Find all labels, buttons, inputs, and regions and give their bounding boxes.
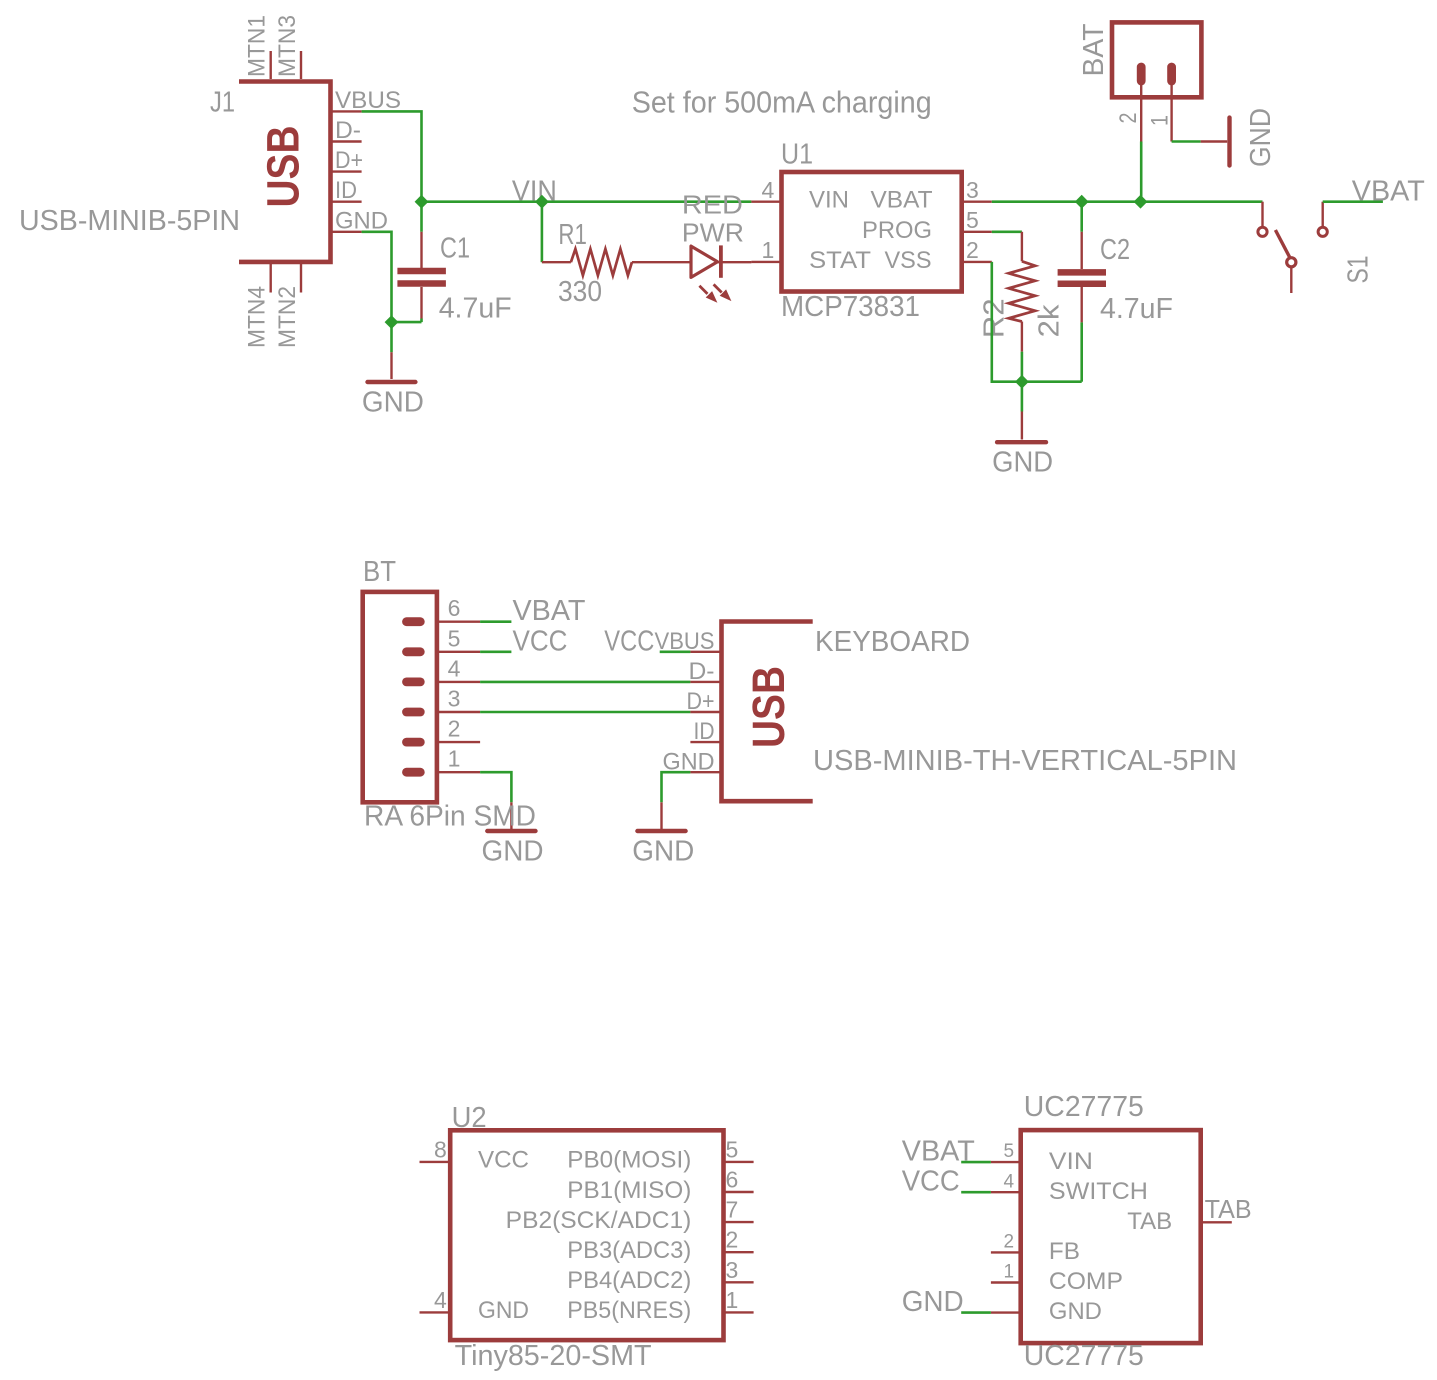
ground bar [1227, 118, 1231, 166]
switch S1 contact 1 lead [1261, 202, 1263, 227]
J1 pin MTN1 stub [270, 51, 272, 79]
U3 pin GND stub [991, 1311, 1021, 1313]
J1 pin MTN2 stub [300, 264, 302, 293]
J1 pin MTN3 stub [300, 51, 302, 79]
svg-text:BAT: BAT [1078, 23, 1110, 76]
U1 pin 3 stub [962, 200, 992, 202]
wire BT pin5 VCC [480, 650, 511, 653]
svg-text:1: 1 [726, 1287, 739, 1313]
wire VBAT to pin5 [961, 1161, 991, 1164]
wire VBUS to VIN node [362, 111, 422, 201]
svg-text:PB3(ADC3): PB3(ADC3) [567, 1237, 691, 1264]
svg-text:R1: R1 [558, 219, 587, 251]
wire U1 VBAT bus [992, 200, 1263, 203]
svg-text:USB: USB [258, 126, 309, 208]
svg-text:SWITCH: SWITCH [1049, 1178, 1148, 1205]
svg-text:VBAT: VBAT [902, 1136, 975, 1168]
BT pad 5 [407, 647, 421, 656]
svg-text:1: 1 [762, 237, 775, 263]
wire BT pin6 VBAT [480, 620, 511, 623]
svg-text:4.7uF: 4.7uF [1100, 293, 1173, 325]
svg-text:VBUS: VBUS [335, 87, 401, 114]
J1 pin VBUS stub [331, 110, 362, 112]
IC U1 MCP73831 body [782, 172, 962, 292]
svg-text:C2: C2 [1100, 234, 1130, 266]
svg-text:MTN4: MTN4 [244, 286, 271, 348]
BAT pad 2 [1137, 67, 1146, 81]
U2 pin 1 stub [724, 1311, 754, 1313]
svg-text:VSS: VSS [885, 247, 932, 274]
wire down to ground symbol [390, 322, 393, 352]
svg-text:ID: ID [335, 177, 357, 204]
U2 pin 5 stub [724, 1161, 754, 1163]
svg-text:Set for 500mA charging: Set for 500mA charging [632, 84, 932, 119]
capacitor C1 plates [397, 268, 446, 275]
svg-text:D+: D+ [687, 688, 715, 715]
junction at C1 bottom [385, 315, 399, 329]
svg-text:2: 2 [1004, 1232, 1015, 1253]
svg-text:6: 6 [448, 595, 461, 621]
wire U1 PROG to R2 [992, 231, 1022, 234]
USB pin D- stub [690, 681, 721, 683]
svg-text:MTN2: MTN2 [274, 286, 301, 348]
svg-text:PB5(NRES): PB5(NRES) [567, 1297, 691, 1324]
junction at VIN [535, 195, 549, 209]
connector USB keyboard body [722, 622, 813, 802]
svg-text:VBAT: VBAT [871, 187, 933, 214]
svg-text:VCC: VCC [902, 1166, 960, 1198]
svg-text:GND: GND [902, 1286, 964, 1318]
svg-text:PWR: PWR [682, 217, 744, 247]
U3 pin 5 stub [991, 1161, 1021, 1163]
capacitor C2 top lead [1080, 202, 1083, 232]
ground symbol lead [1021, 412, 1023, 440]
capacitor C2 bottom lead [1080, 287, 1082, 322]
wire BAT pin1 to ground [1172, 140, 1201, 143]
resistor R1 right lead [632, 261, 690, 263]
svg-text:VIN: VIN [512, 175, 557, 207]
svg-text:USB-MINIB-TH-VERTICAL-5PIN: USB-MINIB-TH-VERTICAL-5PIN [813, 745, 1237, 777]
svg-text:VBAT: VBAT [1352, 176, 1425, 208]
svg-text:USB: USB [743, 666, 794, 748]
svg-text:RED: RED [682, 189, 743, 219]
svg-text:D-: D- [335, 117, 361, 144]
ground bar [487, 829, 535, 833]
svg-text:TAB: TAB [1127, 1208, 1172, 1235]
svg-text:2: 2 [1115, 113, 1142, 124]
svg-text:U1: U1 [781, 138, 813, 170]
svg-text:2: 2 [966, 237, 979, 263]
BT pin 5 stub [437, 651, 480, 653]
U2 pin 8 stub [420, 1161, 451, 1163]
svg-text:COMP: COMP [1049, 1268, 1123, 1295]
wire VCC to USB VBUS [660, 650, 691, 653]
svg-text:4: 4 [1004, 1171, 1015, 1192]
J1 pin ID stub [331, 200, 362, 202]
svg-text:VCC: VCC [513, 625, 568, 657]
svg-text:D-: D- [689, 658, 715, 685]
svg-text:MCP73831: MCP73831 [781, 291, 920, 323]
svg-text:PB2(SCK/ADC1): PB2(SCK/ADC1) [506, 1207, 692, 1234]
svg-text:UC27775: UC27775 [1024, 1091, 1144, 1123]
svg-text:4: 4 [448, 655, 461, 681]
J1 pin MTN4 stub [270, 264, 272, 293]
J1 pin D- stub [331, 140, 362, 142]
resistor R2 top lead [1021, 232, 1023, 261]
wire VIN down to R1 [541, 202, 544, 263]
svg-text:U2: U2 [452, 1102, 487, 1134]
USB pin ID stub [690, 741, 721, 743]
svg-text:GND: GND [1245, 108, 1277, 167]
svg-text:2k: 2k [1034, 304, 1066, 338]
svg-text:RA 6Pin SMD: RA 6Pin SMD [364, 800, 536, 832]
svg-text:TAB: TAB [1205, 1194, 1252, 1224]
svg-text:GND: GND [362, 386, 424, 418]
svg-text:5: 5 [448, 625, 461, 651]
svg-text:VIN: VIN [1049, 1148, 1093, 1175]
wire to VBAT flag [1323, 200, 1383, 203]
svg-text:5: 5 [966, 207, 979, 233]
USB pin D+ stub [690, 711, 721, 713]
svg-text:GND: GND [632, 835, 694, 867]
svg-text:S1: S1 [1343, 256, 1375, 284]
U3 pin TAB stub [1201, 1221, 1232, 1223]
switch S1 pole lead [1290, 267, 1292, 293]
resistor R2 zigzag [1009, 261, 1036, 321]
switch S1 contact 2 lead [1321, 202, 1323, 227]
svg-text:PB1(MISO): PB1(MISO) [567, 1177, 691, 1204]
svg-text:VCC: VCC [604, 625, 654, 657]
wire junction to ground [1021, 382, 1024, 412]
BT pad 6 [407, 617, 421, 626]
svg-text:PB0(MOSI): PB0(MOSI) [567, 1147, 691, 1174]
svg-text:R2: R2 [978, 298, 1010, 338]
ground symbol lead [660, 802, 662, 829]
U2 pin 6 stub [724, 1191, 754, 1193]
junction at C2 top [1075, 195, 1089, 209]
ground bar [368, 380, 416, 384]
ground symbol lead [390, 352, 392, 379]
switch S1 contact 2 [1318, 227, 1327, 236]
BT pad 4 [407, 678, 421, 687]
U1 pin 2 stub [962, 261, 992, 263]
IC U3 UC27775 body [1021, 1130, 1201, 1343]
svg-text:8: 8 [434, 1136, 447, 1162]
wire BAT pin2 to VBAT bus [1140, 142, 1143, 202]
svg-text:GND: GND [335, 207, 388, 234]
svg-text:2: 2 [448, 716, 461, 742]
svg-text:2: 2 [726, 1227, 739, 1253]
svg-text:MTN3: MTN3 [274, 15, 301, 77]
svg-text:ID: ID [694, 718, 715, 745]
svg-text:7: 7 [726, 1197, 739, 1223]
LED PWR triangle [691, 246, 718, 277]
svg-text:MTN1: MTN1 [244, 15, 271, 77]
svg-text:4: 4 [434, 1287, 447, 1313]
U1 pin 1 stub [751, 261, 781, 263]
USB pin VBUS stub [690, 651, 721, 653]
resistor R1 zigzag [571, 249, 632, 276]
switch S1 lever [1275, 230, 1289, 257]
svg-text:5: 5 [726, 1136, 739, 1162]
BAT pin 1 lead [1170, 84, 1172, 142]
ground symbol lead [1201, 140, 1228, 142]
switch S1 contact 1 [1258, 227, 1267, 236]
BT pad 2 [407, 738, 421, 747]
svg-text:KEYBOARD: KEYBOARD [815, 626, 970, 658]
svg-text:1: 1 [1147, 115, 1174, 126]
connector J1 USB-MINIB-5PIN body [239, 82, 331, 262]
U3 pin 1 stub [991, 1281, 1021, 1283]
svg-text:FB: FB [1049, 1238, 1080, 1265]
svg-text:4.7uF: 4.7uF [439, 292, 512, 324]
BT pin 2 stub [437, 741, 480, 743]
LED emission arrow 2 [714, 284, 722, 292]
svg-text:3: 3 [448, 686, 461, 712]
svg-text:5: 5 [1004, 1141, 1015, 1162]
svg-text:C1: C1 [440, 233, 470, 265]
svg-text:4: 4 [762, 177, 775, 203]
U3 pin 4 stub [991, 1191, 1021, 1193]
wire J1 GND to ground [362, 232, 392, 322]
J1 pin GND stub [331, 231, 362, 233]
svg-text:GND: GND [1049, 1298, 1102, 1325]
wire U1 VSS down [992, 262, 1082, 382]
wire VIN bus [422, 200, 752, 203]
capacitor C1 top lead [420, 202, 423, 232]
USB pin GND stub [690, 771, 721, 773]
IC U2 Tiny85 body [450, 1130, 723, 1340]
svg-text:1: 1 [448, 746, 461, 772]
BAT pin 2 lead [1140, 84, 1142, 142]
wire junction to C1 bottom [392, 321, 422, 324]
svg-text:GND: GND [482, 835, 544, 867]
BT pad 1 [407, 768, 421, 777]
svg-text:GND: GND [992, 447, 1053, 479]
svg-text:330: 330 [558, 276, 602, 308]
wire BT pin3 to USB D+ [480, 711, 690, 714]
LED cathode lead [718, 261, 752, 263]
U2 pin 2 stub [724, 1251, 754, 1253]
ground bar [637, 829, 685, 833]
wire BT pin4 to USB D- [480, 681, 690, 684]
ground symbol lead [510, 802, 512, 829]
ground bar [997, 440, 1046, 444]
wire BT pin1 to ground [480, 772, 511, 802]
svg-text:VCC: VCC [478, 1147, 529, 1174]
wire USB GND to ground [662, 772, 691, 802]
svg-text:3: 3 [966, 177, 979, 203]
BT pin 6 stub [437, 621, 480, 623]
svg-text:VIN: VIN [809, 187, 849, 214]
J1 pin D+ stub [331, 170, 362, 172]
svg-text:GND: GND [478, 1297, 529, 1324]
BT pin 1 stub [437, 771, 480, 773]
junction at C1 top [415, 195, 429, 209]
BAT pad 1 [1167, 67, 1176, 81]
svg-text:STAT: STAT [809, 247, 871, 274]
U2 pin 3 stub [724, 1281, 754, 1283]
svg-text:USB-MINIB-5PIN: USB-MINIB-5PIN [19, 205, 240, 237]
BT pin 4 stub [437, 681, 480, 683]
connector BAT body [1112, 22, 1201, 97]
svg-text:VBAT: VBAT [513, 595, 586, 627]
capacitor C1 bottom lead [420, 287, 422, 319]
U2 pin 4 stub [420, 1311, 451, 1313]
switch S1 pivot [1287, 258, 1296, 267]
wire VCC to pin4 [961, 1191, 991, 1194]
U2 pin 7 stub [724, 1221, 754, 1223]
svg-text:J1: J1 [210, 87, 235, 119]
svg-text:Tiny85-20-SMT: Tiny85-20-SMT [455, 1340, 652, 1372]
svg-text:BT: BT [363, 556, 396, 588]
junction at BAT pin2 [1134, 195, 1148, 209]
LED PWR cathode bar [719, 245, 723, 277]
svg-text:PB4(ADC2): PB4(ADC2) [567, 1267, 691, 1294]
svg-text:PROG: PROG [862, 217, 932, 244]
resistor R2 bottom lead [1021, 322, 1023, 352]
svg-text:D+: D+ [335, 147, 363, 174]
svg-text:6: 6 [726, 1167, 739, 1193]
junction at R2 bottom [1015, 375, 1029, 389]
U3 pin 2 stub [991, 1251, 1021, 1253]
BT pad 3 [407, 708, 421, 717]
U1 pin 5 stub [962, 231, 992, 233]
svg-text:1: 1 [1004, 1262, 1015, 1283]
connector BT body [363, 592, 437, 802]
BT pin 3 stub [437, 711, 480, 713]
svg-text:UC27775: UC27775 [1024, 1340, 1144, 1372]
LED emission arrow 1 [699, 286, 707, 294]
capacitor C2 plates [1058, 269, 1106, 276]
svg-text:3: 3 [726, 1257, 739, 1283]
resistor R1 left lead [542, 261, 571, 263]
U1 pin 4 stub [751, 200, 781, 202]
wire GND to ground pin [961, 1311, 991, 1314]
